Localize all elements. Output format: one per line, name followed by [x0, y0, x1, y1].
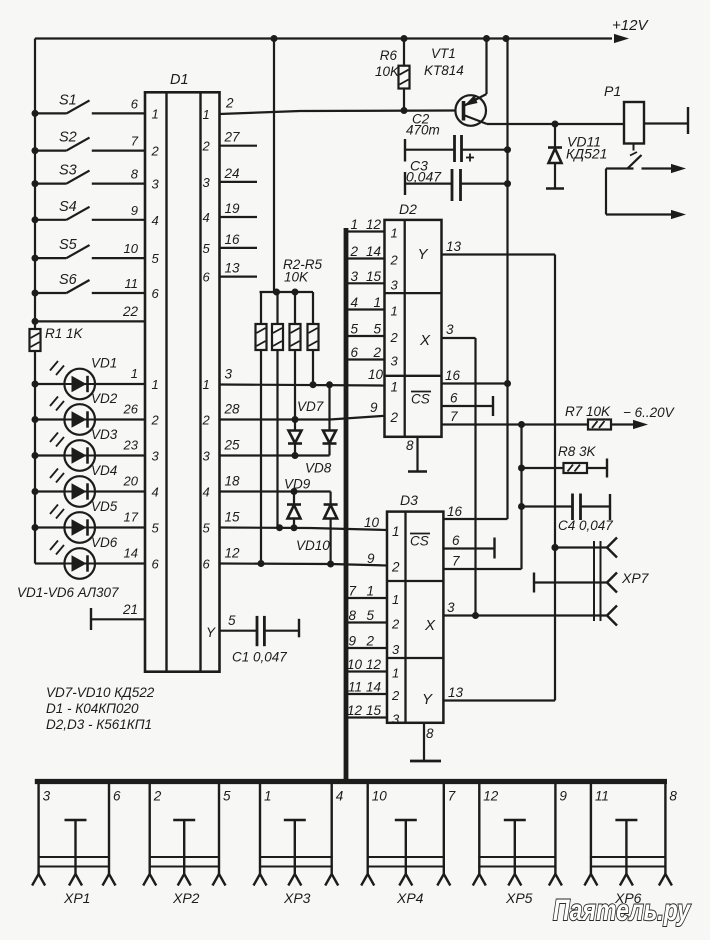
wire row18 D1 to VD9 VD10	[220, 474, 331, 496]
svg-text:15: 15	[366, 269, 382, 284]
svg-text:2: 2	[391, 617, 400, 632]
svg-text:5: 5	[366, 608, 374, 623]
LED VD1	[32, 356, 146, 400]
wire row3 D1 to D2	[220, 367, 385, 389]
svg-text:5: 5	[228, 613, 236, 628]
svg-text:3: 3	[152, 177, 160, 192]
svg-text:VD4: VD4	[91, 463, 117, 478]
wire row15 D1 to D3	[220, 510, 388, 532]
svg-text:S4: S4	[59, 199, 77, 215]
svg-text:VD1: VD1	[91, 356, 117, 371]
svg-text:12: 12	[366, 657, 382, 672]
resistor R8	[522, 444, 608, 478]
svg-text:VD7: VD7	[297, 399, 324, 414]
svg-text:D3: D3	[400, 492, 418, 508]
svg-text:2: 2	[225, 96, 234, 111]
ground D2 pin8	[406, 437, 427, 472]
svg-text:2: 2	[202, 139, 211, 154]
svg-text:VD9: VD9	[284, 477, 311, 492]
wire D1 pin2 row to VT1 base	[220, 96, 456, 115]
svg-text:26: 26	[123, 402, 139, 417]
svg-text:14: 14	[366, 680, 381, 695]
connector XP2	[143, 782, 231, 907]
svg-text:7: 7	[450, 409, 458, 424]
svg-text:2: 2	[390, 253, 399, 268]
svg-text:6: 6	[152, 286, 160, 301]
svg-text:XP4: XP4	[396, 890, 424, 906]
wire D2 X3 output	[441, 322, 476, 616]
svg-text:S1: S1	[59, 92, 77, 108]
resistor R7	[565, 404, 648, 430]
wire bus stub 5 to D2 pin 5	[346, 322, 385, 337]
wire bus stub 10 to D3 pin 12	[346, 657, 387, 672]
svg-text:4: 4	[350, 295, 358, 310]
svg-text:10: 10	[347, 657, 363, 672]
svg-text:6: 6	[131, 96, 139, 111]
capacitor C2	[405, 112, 511, 163]
svg-text:8: 8	[669, 789, 677, 804]
wire bus stub 11 to D3 pin 14	[346, 680, 387, 695]
wire row25 D1 to VD8	[220, 438, 330, 460]
svg-text:14: 14	[366, 244, 381, 259]
wire Y-net vertical	[552, 255, 559, 701]
svg-text:5: 5	[203, 241, 211, 256]
resistor R1	[30, 326, 84, 351]
svg-text:6: 6	[203, 557, 211, 572]
svg-text:D1 - К04КП020: D1 - К04КП020	[46, 701, 139, 716]
label parts list	[46, 685, 155, 732]
svg-text:6: 6	[452, 533, 460, 548]
wire XP7 pin top	[552, 538, 618, 558]
svg-text:XP3: XP3	[283, 890, 311, 906]
label D2 section Y	[418, 246, 429, 263]
IC D1 box	[145, 72, 220, 672]
switch S6	[32, 272, 146, 297]
capacitor C1	[220, 613, 300, 665]
svg-text:14: 14	[124, 546, 138, 561]
svg-text:12: 12	[347, 703, 363, 718]
wire bus stub 7 to D3 pin 1	[346, 584, 387, 599]
svg-text:R8 3K: R8 3K	[558, 444, 597, 459]
resistor R2	[256, 292, 267, 564]
svg-text:4: 4	[336, 789, 344, 804]
svg-text:CS: CS	[411, 392, 430, 407]
svg-text:9: 9	[131, 203, 138, 218]
wire D2 pin7 to R7	[441, 409, 588, 428]
svg-text:2: 2	[151, 413, 160, 428]
label D2 section X	[419, 332, 431, 349]
label VD1-VD6 type	[17, 585, 119, 600]
label D3 section Y	[422, 691, 433, 708]
svg-text:6: 6	[152, 557, 160, 572]
svg-text:+12V: +12V	[612, 17, 649, 34]
svg-text:13: 13	[448, 685, 464, 700]
wire D1 pin24 stub	[220, 166, 258, 182]
svg-text:8: 8	[406, 438, 414, 453]
label D2 section CS	[411, 392, 431, 407]
svg-text:24: 24	[224, 166, 240, 181]
wire bus stub 3 to D2 pin 15	[346, 269, 385, 284]
svg-text:3: 3	[152, 449, 160, 464]
svg-text:20: 20	[123, 474, 139, 489]
wire D2 pin6 output	[441, 391, 493, 417]
switch S1	[32, 92, 146, 117]
label -6..20V	[623, 405, 676, 420]
svg-text:10: 10	[372, 789, 388, 804]
svg-text:3: 3	[447, 600, 455, 615]
diode VD8	[305, 384, 337, 476]
svg-text:R6: R6	[380, 48, 398, 63]
svg-text:27: 27	[224, 130, 241, 145]
svg-text:10K: 10K	[284, 270, 309, 285]
wire row28 D1 to D2	[220, 400, 385, 423]
svg-text:2: 2	[349, 244, 358, 259]
svg-text:1: 1	[131, 366, 138, 381]
diode VD10	[296, 492, 338, 565]
svg-text:4: 4	[152, 213, 159, 228]
svg-text:3: 3	[391, 277, 399, 292]
svg-text:9: 9	[367, 551, 375, 566]
wire VT1 collector row	[487, 121, 624, 128]
wire VEE vertical R7 R8 C4	[518, 425, 525, 570]
svg-text:Y: Y	[422, 691, 433, 708]
label D1 right pin numbers top	[202, 107, 211, 285]
svg-text:25: 25	[224, 438, 241, 453]
svg-text:3: 3	[43, 789, 51, 804]
svg-text:VD6: VD6	[91, 535, 118, 550]
node XP7 pin bottom	[607, 606, 617, 626]
IC D2 box	[385, 201, 442, 437]
wire bus stub 9 to D3 pin 2	[346, 634, 387, 649]
svg-text:16: 16	[445, 368, 461, 383]
wire pullup feed vertical	[273, 39, 275, 293]
svg-text:R1 1K: R1 1K	[45, 326, 84, 341]
svg-text:19: 19	[225, 201, 241, 216]
svg-text:15: 15	[366, 703, 382, 718]
wire D3 pin7 output	[443, 554, 521, 570]
wire pin22 row	[32, 304, 146, 325]
resistor R5	[308, 292, 319, 384]
svg-text:1: 1	[392, 666, 399, 681]
wire bus stub 12 to D3 pin 15	[346, 703, 387, 718]
label D3 section X	[424, 617, 436, 634]
svg-text:X: X	[419, 332, 431, 349]
LED VD2	[32, 391, 146, 435]
connector XP5	[473, 782, 568, 907]
svg-text:S6: S6	[59, 272, 78, 288]
svg-text:7: 7	[348, 584, 356, 599]
IC D3 box	[387, 492, 443, 723]
svg-text:16: 16	[225, 232, 241, 247]
transistor VT1	[424, 39, 487, 126]
svg-text:C1 0,047: C1 0,047	[232, 650, 287, 665]
svg-text:VD7-VD10 КД522: VD7-VD10 КД522	[46, 685, 155, 700]
svg-text:CS: CS	[410, 534, 429, 549]
label D1 left pin numbers top	[151, 106, 160, 301]
svg-text:3: 3	[391, 354, 399, 369]
svg-text:1: 1	[350, 217, 358, 232]
wire bus stub 4 to D2 pin 1	[346, 295, 385, 310]
svg-text:XP7: XP7	[621, 570, 650, 586]
svg-text:17: 17	[124, 510, 139, 525]
label D2 inner pin numbers	[390, 226, 399, 425]
svg-text:VT1: VT1	[431, 46, 456, 61]
label D3 inner pin numbers X	[391, 592, 400, 657]
svg-text:2: 2	[391, 688, 400, 703]
wire D1 pin16 stub	[220, 232, 258, 248]
svg-text:22: 22	[122, 304, 139, 319]
svg-text:6: 6	[450, 391, 458, 406]
svg-text:Y: Y	[418, 246, 429, 263]
connector XP3	[254, 782, 344, 907]
svg-text:9: 9	[559, 789, 567, 804]
wire bus stub 8 to D3 pin 5	[346, 608, 387, 623]
wire +12V vertical to D3 pin16	[443, 39, 511, 520]
switch S2	[32, 130, 146, 155]
svg-text:2: 2	[365, 634, 374, 649]
svg-text:1: 1	[264, 789, 272, 804]
svg-text:6: 6	[350, 345, 358, 360]
capacitor C4	[522, 494, 614, 534]
LED VD4	[32, 463, 146, 507]
svg-text:7: 7	[131, 134, 139, 149]
diode VD7	[288, 399, 324, 456]
svg-text:VD1-VD6 АЛ307: VD1-VD6 АЛ307	[17, 585, 119, 600]
svg-text:7: 7	[448, 789, 456, 804]
svg-text:VD10: VD10	[296, 538, 330, 553]
svg-text:D1: D1	[170, 72, 189, 88]
wire row12 D1 to D3	[220, 546, 388, 568]
svg-text:2: 2	[372, 345, 381, 360]
svg-text:2: 2	[151, 144, 160, 159]
svg-text:5: 5	[203, 521, 211, 536]
watermark	[553, 894, 691, 927]
svg-text:1: 1	[391, 304, 398, 319]
svg-text:28: 28	[224, 402, 241, 417]
svg-text:− 6..20V: − 6..20V	[623, 405, 676, 420]
svg-text:6: 6	[203, 270, 211, 285]
svg-text:6: 6	[113, 789, 121, 804]
svg-text:R7 10K: R7 10K	[565, 404, 611, 419]
wire left +12V bus	[34, 39, 36, 564]
svg-text:1: 1	[373, 295, 381, 310]
svg-text:15: 15	[225, 510, 241, 525]
svg-text:D2,D3 - К561КП1: D2,D3 - К561КП1	[46, 717, 152, 732]
svg-text:8: 8	[426, 726, 434, 741]
label D1 left pin numbers bottom	[151, 377, 160, 572]
svg-text:3: 3	[350, 269, 358, 284]
svg-text:3: 3	[225, 367, 233, 382]
wire bus stub 1 to D2 pin 12	[346, 217, 385, 232]
svg-text:10: 10	[124, 241, 139, 256]
svg-text:2: 2	[390, 410, 399, 425]
svg-text:8: 8	[348, 608, 356, 623]
svg-text:XP1: XP1	[63, 890, 90, 906]
wire D1 pin13 stub	[220, 261, 258, 277]
resistor R4	[290, 292, 301, 420]
svg-text:X: X	[424, 617, 436, 634]
svg-text:4: 4	[203, 210, 210, 225]
svg-text:S2: S2	[59, 130, 77, 146]
svg-text:XP2: XP2	[172, 890, 200, 906]
switch S3	[32, 163, 146, 188]
svg-text:C4 0,047: C4 0,047	[558, 518, 613, 533]
diode VD9	[284, 477, 311, 528]
svg-text:18: 18	[225, 474, 241, 489]
svg-text:13: 13	[446, 239, 462, 254]
LED VD6	[35, 535, 145, 579]
wire R2-R5 top rail	[260, 289, 314, 296]
svg-text:VD3: VD3	[91, 427, 118, 442]
svg-text:5: 5	[152, 521, 160, 536]
label D1 output Y	[206, 625, 216, 640]
ground D3 pin8	[410, 723, 441, 761]
svg-text:13: 13	[225, 261, 241, 276]
svg-text:3: 3	[392, 712, 400, 727]
svg-text:16: 16	[447, 504, 463, 519]
svg-text:1: 1	[203, 377, 210, 392]
svg-text:Y: Y	[206, 625, 216, 640]
svg-text:12: 12	[225, 546, 241, 561]
svg-text:S3: S3	[59, 163, 77, 179]
wire D1 pin27 stub	[220, 130, 258, 146]
switch S5	[32, 237, 146, 262]
svg-text:1: 1	[392, 592, 399, 607]
svg-text:8: 8	[131, 167, 139, 182]
wire bus stub 2 to D2 pin 14	[346, 244, 385, 259]
wire D2 Y13 output	[441, 239, 555, 255]
label D3 section CS	[410, 534, 430, 549]
connector XP7 body	[594, 541, 650, 621]
svg-text:7: 7	[452, 554, 460, 569]
svg-text:2: 2	[153, 789, 162, 804]
svg-text:23: 23	[123, 438, 139, 453]
label D3 inner pin numbers Y	[391, 666, 400, 727]
connector XP4	[361, 782, 456, 907]
svg-text:12: 12	[366, 217, 382, 232]
svg-text:Паятель.ру: Паятель.ру	[553, 894, 691, 927]
capacitor C3	[405, 158, 511, 202]
svg-text:XP5: XP5	[505, 890, 533, 906]
relay P1 coil	[604, 83, 688, 144]
wire D3 pin6 output	[443, 533, 494, 559]
svg-text:2: 2	[202, 413, 211, 428]
svg-text:3: 3	[203, 175, 211, 190]
svg-text:S5: S5	[59, 237, 78, 253]
svg-text:11: 11	[595, 789, 609, 804]
wire D1 pin19 stub	[220, 201, 258, 217]
node rail junction dots	[271, 35, 510, 42]
svg-text:1: 1	[392, 524, 400, 539]
svg-text:10: 10	[364, 515, 380, 530]
wire D3 X3 output to XP7	[443, 600, 607, 619]
switch S4	[32, 199, 146, 224]
svg-text:4: 4	[203, 485, 210, 500]
connector XP1	[32, 782, 121, 907]
svg-text:470m: 470m	[406, 123, 440, 138]
svg-text:9: 9	[348, 634, 356, 649]
svg-text:10K: 10K	[375, 64, 400, 79]
svg-text:P1: P1	[604, 83, 621, 99]
svg-text:11: 11	[125, 276, 139, 291]
svg-text:KT814: KT814	[424, 63, 464, 78]
svg-text:11: 11	[348, 680, 362, 695]
svg-text:3: 3	[392, 642, 400, 657]
LED VD5	[32, 499, 146, 543]
svg-text:5: 5	[223, 789, 231, 804]
node rail-arrow	[614, 34, 629, 43]
svg-text:5: 5	[152, 251, 160, 266]
connector XP6	[584, 782, 677, 907]
svg-text:1: 1	[366, 584, 374, 599]
svg-text:3: 3	[446, 322, 454, 337]
svg-text:1: 1	[152, 377, 159, 392]
svg-text:4: 4	[152, 485, 159, 500]
wire D1 pin21 row	[91, 602, 145, 630]
label D1 right pin numbers bottom	[202, 377, 211, 572]
svg-text:12: 12	[483, 789, 499, 804]
wire D2 pin16 output	[441, 368, 508, 384]
svg-text:1: 1	[203, 107, 210, 122]
svg-text:VD8: VD8	[305, 461, 332, 476]
svg-text:21: 21	[122, 602, 138, 617]
label D3 inner pin numbers CS	[391, 524, 400, 575]
power label +12V	[612, 17, 649, 34]
svg-text:VD5: VD5	[91, 499, 118, 514]
resistor R3	[272, 292, 283, 528]
wire XP7 pin middle	[534, 573, 617, 593]
wire D3 Y13 output	[443, 685, 555, 701]
svg-text:5: 5	[373, 322, 381, 337]
svg-text:1: 1	[391, 226, 398, 241]
LED VD3	[32, 427, 146, 471]
svg-text:VD2: VD2	[91, 391, 118, 406]
relay P1 contact	[606, 144, 686, 220]
wire +12V rail	[35, 37, 612, 39]
wire group bus vertical	[344, 228, 349, 782]
svg-text:2: 2	[390, 330, 399, 345]
svg-text:1: 1	[152, 106, 159, 121]
svg-text:D2: D2	[399, 201, 417, 217]
svg-text:0,047: 0,047	[406, 169, 442, 185]
svg-text:9: 9	[370, 400, 378, 415]
svg-text:5: 5	[350, 322, 358, 337]
svg-text:КД521: КД521	[566, 146, 607, 162]
diode VD11	[546, 124, 607, 189]
resistor R6	[375, 39, 410, 115]
wire bus stub 6 to D2 pin 2	[346, 345, 385, 360]
wire group bus bottom	[35, 779, 667, 784]
label R2-R5 10K	[283, 257, 323, 285]
svg-text:1: 1	[391, 380, 399, 395]
svg-text:2: 2	[391, 560, 400, 575]
svg-text:10: 10	[368, 367, 384, 382]
svg-text:3: 3	[203, 449, 211, 464]
